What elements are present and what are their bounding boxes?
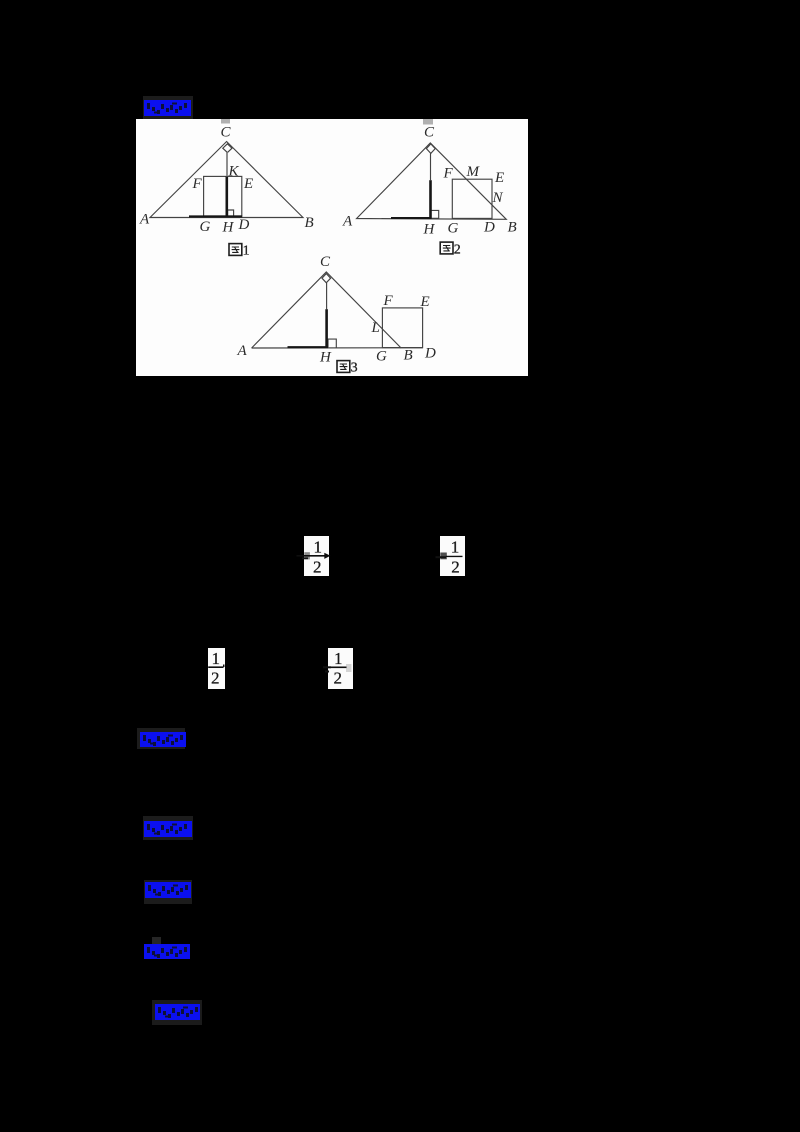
svg-text:1: 1 (243, 244, 250, 259)
svg-text:3: 3 (351, 361, 358, 376)
blue label 5 (【点睛】) (152, 937, 161, 945)
triangle ABC fig1 (150, 142, 303, 218)
triangle ACB + base to D fig3 (252, 272, 402, 348)
blue label 3 (【分析】) (143, 816, 193, 840)
svg-text:E: E (420, 294, 430, 310)
svg-text:B: B (305, 215, 314, 231)
svg-text:G: G (376, 349, 387, 365)
fraction box 4 (328, 648, 353, 689)
svg-text:C: C (320, 254, 331, 270)
svg-text:D: D (238, 217, 250, 233)
svg-text:E: E (243, 176, 253, 192)
blue label 2 (【答案】) (137, 728, 185, 749)
diamond at apex C fig2 (426, 144, 435, 154)
gray drag square box2 (440, 553, 447, 560)
base line A to D fig3 (252, 347, 423, 349)
svg-text:2: 2 (334, 669, 343, 688)
svg-text:2: 2 (454, 243, 461, 258)
svg-text:C: C (424, 125, 435, 141)
gray handle above fig2 C (423, 119, 433, 125)
fraction box 3 (208, 648, 225, 689)
arrow tail stub box1 (302, 557, 308, 559)
svg-text:H: H (222, 220, 235, 236)
svg-text:A: A (342, 214, 353, 230)
fraction bar box3 (208, 666, 223, 668)
svg-text:B: B (404, 348, 413, 364)
left stub box4 (323, 666, 331, 668)
right edge tick box3 (223, 665, 225, 668)
vertex labels fig1 (139, 125, 314, 236)
small tick under stub box4 (325, 671, 329, 673)
svg-text:A: A (139, 212, 150, 228)
altitude lower bold fig3 (325, 309, 328, 347)
bold base segment fig2 (391, 217, 432, 219)
altitude CH upper thin part fig2 (430, 153, 432, 180)
left stub box2 (436, 556, 447, 558)
svg-text:N: N (492, 190, 504, 206)
svg-text:A: A (237, 343, 248, 359)
svg-text:1: 1 (451, 538, 460, 557)
right-angle mark at H fig2 (431, 210, 438, 218)
right-angle mark at H fig3 (328, 339, 336, 347)
altitude KH bold fig1 (226, 176, 229, 216)
fraction box 1 (with arrow) (304, 536, 329, 577)
vertex labels fig2 (342, 125, 517, 238)
right-angle mark at H fig1 (228, 210, 234, 216)
caption 图1 (229, 244, 250, 259)
svg-text:H: H (319, 350, 332, 366)
square FGDE fig2 (452, 179, 492, 218)
altitude CH upper thin fig3 (326, 283, 328, 309)
blue label 1 (【分析】 pixelated) (143, 96, 193, 119)
light gray square box4 (346, 664, 352, 672)
gray handle above fig1 C (221, 119, 230, 124)
fraction box 2 (440, 536, 465, 577)
caption 图3 (337, 361, 358, 376)
square FGDE fig3 (382, 308, 422, 348)
svg-text:H: H (423, 222, 436, 238)
arrow through fraction box1 (297, 555, 328, 557)
svg-text:G: G (200, 219, 211, 235)
fraction bar box4 (331, 666, 347, 668)
vertex labels fig3 (237, 254, 437, 366)
svg-text:M: M (466, 164, 481, 180)
fraction bar box2 (446, 555, 463, 557)
triangle ABC fig2 (357, 143, 507, 219)
svg-text:1: 1 (314, 538, 323, 557)
svg-text:2: 2 (211, 669, 220, 688)
svg-text:F: F (443, 166, 454, 182)
bold base segment fig1 (189, 215, 242, 217)
bold base segment fig3 (288, 346, 329, 348)
diamond at apex C fig3 (322, 274, 331, 283)
svg-text:G: G (448, 221, 459, 237)
altitude CK upper gray part fig1 (226, 152, 228, 176)
svg-text:L: L (371, 320, 380, 336)
svg-text:2: 2 (451, 558, 460, 577)
diamond at apex C fig1 (223, 144, 232, 153)
blue label 4 (【详解】) (144, 880, 192, 904)
svg-text:2: 2 (313, 558, 322, 577)
svg-text:1: 1 (212, 649, 221, 668)
gray drag square box1 (304, 552, 310, 559)
square FGHD... wait square F E D G fig1 (204, 176, 242, 216)
svg-text:F: F (383, 293, 394, 309)
svg-text:E: E (494, 170, 504, 186)
svg-text:D: D (483, 220, 495, 236)
svg-text:C: C (221, 125, 232, 141)
svg-text:D: D (424, 346, 436, 362)
svg-text:1: 1 (334, 649, 343, 668)
svg-text:K: K (228, 164, 240, 180)
blue label 6 (【解答】) (152, 1000, 202, 1025)
caption 图2 (440, 242, 461, 258)
svg-text:F: F (192, 176, 203, 192)
svg-text:B: B (508, 220, 517, 236)
altitude lower bold fig2 (429, 180, 432, 218)
white figure panel (136, 119, 528, 376)
